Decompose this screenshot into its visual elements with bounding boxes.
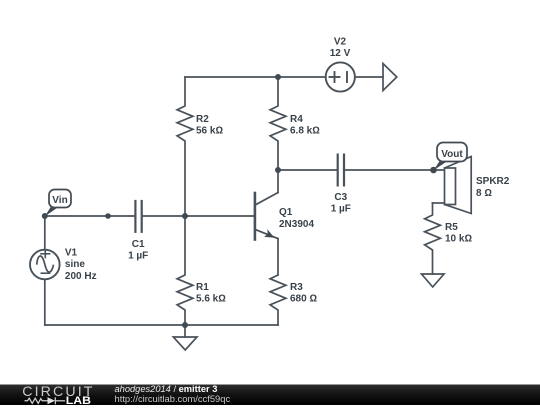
svg-text:Q1: Q1	[279, 207, 293, 218]
node output arrow flag	[383, 64, 397, 91]
svg-text:680 Ω: 680 Ω	[290, 294, 317, 305]
resistor R3	[270, 275, 286, 325]
flag Vout	[434, 143, 468, 171]
junction node Vout	[430, 167, 437, 174]
svg-text:V1: V1	[65, 248, 78, 259]
junction ground node	[182, 322, 188, 328]
svg-text:200 Hz: 200 Hz	[65, 271, 97, 282]
ground R5	[422, 274, 445, 287]
voltage source V1	[44, 216, 46, 249]
wire mid rail left	[45, 215, 134, 217]
svg-text:sine: sine	[65, 259, 85, 270]
svg-text:6.8 kΩ: 6.8 kΩ	[290, 126, 320, 137]
svg-text:R1: R1	[196, 282, 209, 293]
footer bar	[0, 384, 540, 407]
logo mini schematic	[25, 397, 66, 404]
wire V2 to arrow	[355, 76, 383, 78]
svg-text:Vout: Vout	[441, 149, 463, 160]
junction at R4 top	[275, 74, 281, 80]
speaker SPKR2	[445, 157, 472, 214]
wire top rail	[185, 76, 325, 78]
svg-text:1 µF: 1 µF	[128, 251, 148, 262]
svg-text:56 kΩ: 56 kΩ	[196, 126, 223, 137]
transistor Q1	[255, 170, 278, 275]
resistor R1	[177, 216, 193, 325]
resistor R4	[270, 77, 286, 170]
wire to speaker	[434, 169, 445, 171]
junction collector node	[275, 167, 281, 173]
svg-text:C1: C1	[132, 239, 145, 250]
svg-text:1 µF: 1 µF	[331, 204, 351, 215]
junction node Vin	[42, 213, 48, 219]
svg-text:R2: R2	[196, 114, 209, 125]
svg-text:LAB: LAB	[66, 395, 91, 405]
resistor R5	[425, 203, 441, 274]
svg-text:2N3904: 2N3904	[279, 219, 314, 230]
svg-text:http://circuitlab.com/ccf59qc: http://circuitlab.com/ccf59qc	[115, 393, 231, 404]
wire mid rail right	[143, 215, 254, 217]
capacitor C1	[135, 201, 141, 232]
svg-text:5.6 kΩ: 5.6 kΩ	[196, 294, 226, 305]
svg-text:C3: C3	[334, 192, 347, 203]
wire collector rail	[278, 169, 336, 171]
svg-text:8 Ω: 8 Ω	[476, 188, 492, 199]
ground main	[184, 325, 186, 337]
wire bottom rail	[45, 324, 278, 326]
flag Vin	[45, 190, 71, 217]
svg-text:12 V: 12 V	[330, 48, 351, 59]
junction on input wire	[105, 213, 111, 219]
voltage source V2	[326, 62, 355, 91]
svg-text:R3: R3	[290, 282, 303, 293]
svg-text:R5: R5	[445, 222, 458, 233]
resistor R2	[177, 77, 193, 216]
svg-text:R4: R4	[290, 114, 303, 125]
svg-text:SPKR2: SPKR2	[476, 176, 510, 187]
svg-text:Vin: Vin	[52, 195, 67, 206]
svg-text:V2: V2	[334, 36, 347, 47]
svg-text:10 kΩ: 10 kΩ	[445, 234, 472, 245]
capacitor C3	[338, 155, 344, 186]
junction R2/R1/base node	[182, 213, 188, 219]
